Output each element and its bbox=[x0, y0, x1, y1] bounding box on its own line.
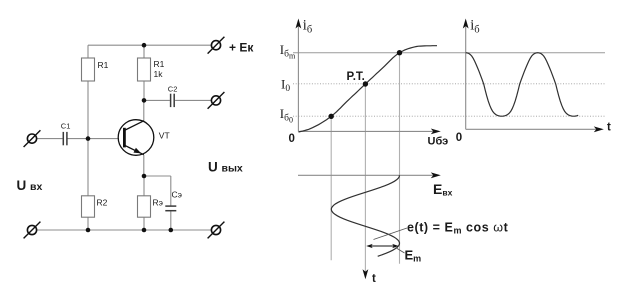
svg-text:0: 0 bbox=[456, 132, 462, 144]
svg-text:1k: 1k bbox=[154, 69, 164, 79]
svg-text:C1: C1 bbox=[61, 122, 71, 131]
svg-text:+ Eк: + Eк bbox=[229, 41, 254, 55]
svg-text:U вх: U вх bbox=[17, 178, 43, 193]
svg-text:Uбэ: Uбэ bbox=[428, 136, 449, 148]
svg-text:R1: R1 bbox=[98, 60, 109, 70]
svg-text:0: 0 bbox=[289, 133, 295, 145]
svg-text:C2: C2 bbox=[168, 85, 178, 94]
svg-text:R2: R2 bbox=[97, 198, 108, 208]
svg-text:P.T.: P.T. bbox=[347, 71, 365, 83]
svg-text:t: t bbox=[607, 121, 611, 133]
svg-text:R1: R1 bbox=[154, 59, 165, 69]
svg-text:Cэ: Cэ bbox=[172, 190, 182, 200]
svg-text:t: t bbox=[372, 273, 376, 285]
svg-text:Rэ: Rэ bbox=[153, 198, 163, 208]
svg-text:U вых: U вых bbox=[208, 159, 243, 174]
svg-text:VT: VT bbox=[159, 130, 170, 140]
